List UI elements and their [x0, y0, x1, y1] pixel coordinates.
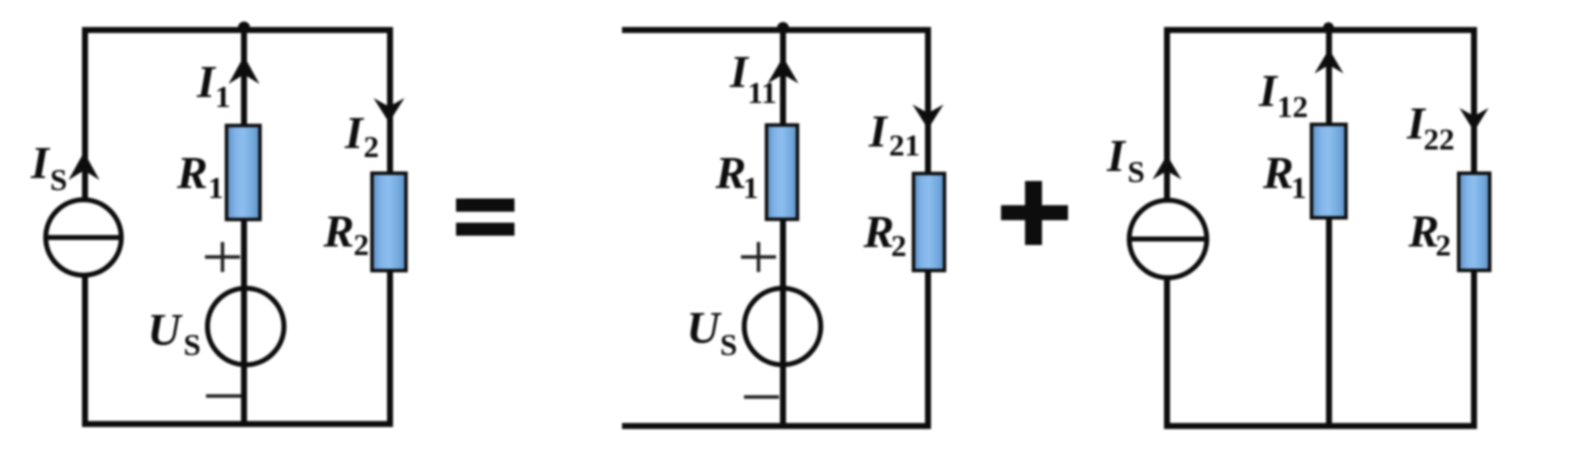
- svg-text:R: R: [1262, 147, 1294, 198]
- svg-text:I: I: [868, 106, 889, 157]
- svg-text:11: 11: [748, 75, 777, 110]
- svg-text:I: I: [30, 137, 51, 188]
- svg-text:2: 2: [1436, 228, 1452, 263]
- svg-text:R: R: [176, 147, 208, 198]
- svg-text:R: R: [1408, 206, 1440, 257]
- svg-text:I: I: [344, 107, 365, 158]
- svg-text:I: I: [1258, 65, 1279, 116]
- svg-text:R: R: [863, 206, 895, 257]
- svg-text:R: R: [323, 206, 355, 257]
- svg-text:R: R: [715, 147, 747, 198]
- svg-text:1: 1: [208, 170, 224, 205]
- svg-text:1: 1: [1291, 170, 1307, 205]
- svg-text:1: 1: [743, 170, 759, 205]
- svg-text:S: S: [50, 162, 67, 197]
- svg-text:2: 2: [364, 129, 380, 164]
- svg-text:U: U: [148, 304, 184, 355]
- svg-text:S: S: [184, 327, 201, 362]
- svg-text:S: S: [720, 327, 737, 362]
- svg-text:1: 1: [215, 79, 231, 114]
- svg-text:U: U: [687, 302, 723, 353]
- svg-text:S: S: [1128, 154, 1145, 189]
- svg-text:I: I: [1106, 130, 1127, 181]
- svg-text:2: 2: [891, 228, 907, 263]
- svg-text:2: 2: [354, 227, 370, 262]
- svg-text:I: I: [196, 56, 217, 107]
- svg-text:12: 12: [1277, 89, 1308, 124]
- svg-text:21: 21: [889, 128, 920, 163]
- svg-text:22: 22: [1424, 122, 1455, 157]
